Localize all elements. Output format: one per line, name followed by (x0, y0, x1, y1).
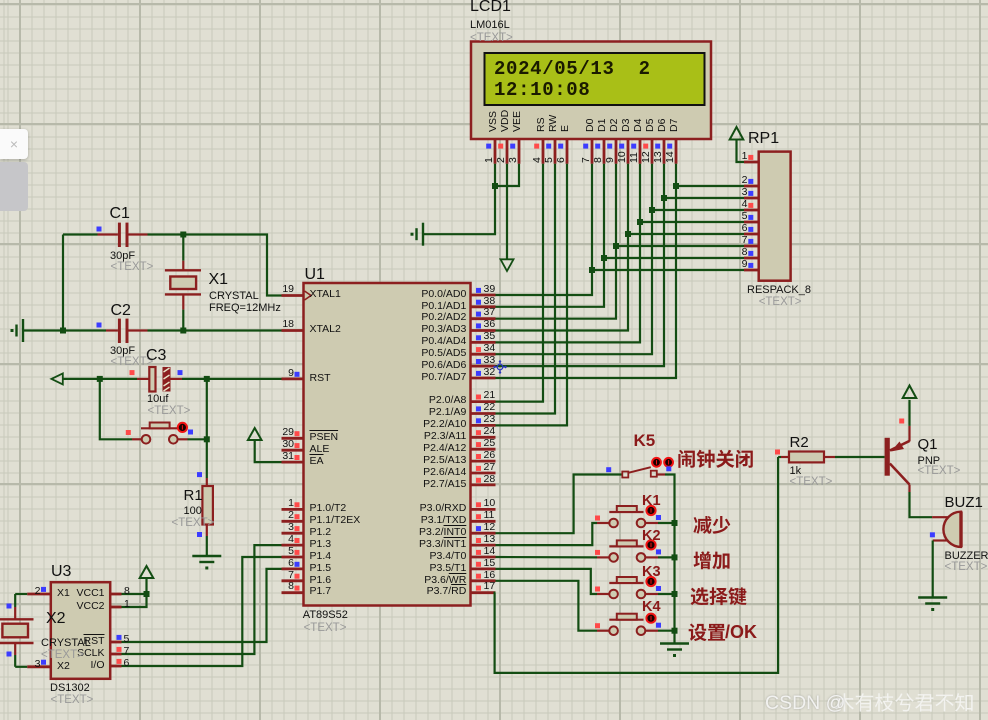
U1 left pin 4 stub (282, 544, 304, 547)
U1 left pin 19 stub (282, 294, 304, 297)
label select-key (chinese) (691, 587, 747, 605)
LCD pin name E (560, 124, 571, 131)
LCD pin name VSS (488, 110, 499, 131)
U3 pin numbers (0, 586, 41, 598)
RP1 pin 7 stub (744, 245, 759, 248)
LCD pin name D6 (657, 118, 668, 131)
junction K2 bus (672, 554, 678, 560)
power arrow EA (248, 428, 262, 440)
LCD pin 13 (D6) stub (663, 139, 666, 164)
ground for LCD VSS/VEE (422, 223, 424, 246)
LCD pin name VEE (512, 110, 523, 131)
U1 pin name P0.7/AD7 (346, 372, 466, 384)
U1 pin name P3.1/TXD (346, 515, 466, 527)
U1 pin number 30 (174, 439, 294, 451)
junction D0-RP1 (589, 267, 595, 273)
U1 left pin 29 stub (282, 437, 304, 440)
wire buzzer to ground (932, 541, 934, 598)
label C3 (146, 347, 166, 364)
U1 pin name P2.4/A12 (346, 443, 466, 455)
LCD pin number 13 (653, 152, 664, 164)
U1 right pin 15 stub (471, 568, 496, 571)
resistor R1 (202, 486, 213, 525)
LCD pin name D0 (585, 118, 596, 131)
wire P3.2 to K5 (496, 475, 623, 534)
wire LCD D5 / P0.5 / RP1 column (496, 164, 653, 354)
U1 pin name P0.1/AD1 (346, 301, 466, 313)
wire LCD E to U1 (496, 164, 568, 426)
U1 pin name P3.4/T0 (346, 551, 466, 563)
wire K5 to bus (665, 475, 675, 644)
U1 pin number 33 (484, 355, 496, 367)
label BUZ1 (945, 495, 983, 511)
LCD screen text (494, 59, 651, 100)
LCD pin number 5 (544, 157, 555, 163)
U1 pin name P3.3/INT1 (346, 539, 466, 551)
U3 right pin 7 stub (110, 653, 121, 656)
U1 left pin 30 stub (282, 449, 304, 452)
LCD pin name VDD (500, 109, 511, 131)
wire reset button branch (100, 379, 132, 439)
U1 pin number 39 (484, 284, 496, 296)
U1 pin name P1.7 (310, 586, 332, 598)
wire LCD RW to U1 (496, 164, 556, 414)
U1 pin number 28 (484, 474, 496, 486)
LCD pin 1 (VSS) stub (494, 139, 497, 164)
LCD pin name RW (548, 114, 559, 131)
U1 right pin 36 stub (471, 329, 496, 332)
wire P3.6 to K4 (496, 581, 598, 631)
U1 pin number 36 (484, 319, 496, 331)
U1 pin name P1.0/T2 (310, 503, 347, 515)
RP1 pin 9 stub (744, 269, 759, 272)
switch K5 (622, 472, 628, 478)
wire P3.3 to K1 (496, 523, 598, 545)
wire RP1 pin1 to power (737, 140, 745, 163)
power arrow RP1 (730, 127, 744, 140)
resistor R2 (778, 456, 781, 458)
wire C1 row to XTAL1 (63, 233, 98, 235)
junction K1 bus (672, 520, 678, 526)
label U1 (305, 266, 325, 283)
U1 left pin 2 stub (282, 520, 304, 523)
wire P3.4 to K2 (496, 556, 598, 559)
U1 pin name P2.5/A13 (346, 455, 466, 467)
U1 right pin 37 stub (471, 317, 496, 320)
U1 right pin 23 stub (471, 424, 496, 427)
capacitor C2 (118, 319, 121, 343)
crystal X1 (182, 235, 184, 261)
U1 pin name P0.4/AD4 (346, 336, 466, 348)
label Q1 (918, 437, 938, 453)
U1 pin number 12 (484, 522, 496, 534)
wire X2 to U3 X1 pin (15, 593, 27, 595)
LCD pin number 12 (641, 152, 652, 164)
label C2 (111, 302, 131, 319)
wire K2 to bus (658, 556, 675, 558)
U1 right pin 34 stub (471, 353, 496, 356)
capacitor C1 (118, 223, 121, 247)
RP1 pin 4 stub (744, 209, 759, 212)
wire Q1 collector to buzzer (910, 492, 933, 517)
U1 pin number 31 (174, 451, 294, 463)
LCD pin number 14 (665, 152, 676, 164)
junction D3-RP1 (625, 231, 631, 237)
U1 pin name P2.7/A15 (346, 479, 466, 491)
wire LCD D6 / P0.6 / RP1 column (496, 164, 665, 366)
U1 pin number 38 (484, 296, 496, 308)
U1 pin name P2.3/A11 (346, 431, 466, 443)
junction K4 bus (672, 628, 678, 634)
LCD pin number 1 (484, 157, 495, 163)
RP1 pin number 4 (628, 199, 748, 211)
U1 left pin 7 stub (282, 579, 304, 582)
U1 pin number 8 (174, 581, 294, 593)
U3 left pin 2 stub (27, 593, 51, 596)
U1 pin number 11 (484, 510, 495, 522)
U1 pin number 29 (174, 427, 294, 439)
U1 pin name P1.6 (310, 575, 332, 587)
push button K4 (597, 630, 609, 632)
U1 pin number 19 (174, 284, 294, 296)
RP1 pin number 8 (628, 247, 748, 259)
wire U3 I/O to P1.4 (122, 557, 282, 666)
U1 pin name P0.5/AD5 (346, 348, 466, 360)
U1 pin name P0.0/AD0 (346, 289, 466, 301)
wire Q1 emitter to power (908, 400, 910, 426)
U1 pin name ALE (310, 444, 330, 456)
U1 pin name PSEN (310, 432, 339, 444)
LCD pin name D1 (597, 118, 608, 131)
power arrow U3 VCC (140, 566, 154, 578)
U1 pin number 34 (484, 343, 496, 355)
U1 right pin 17 stub (471, 591, 496, 594)
U1 right pin 11 stub (471, 520, 496, 523)
LCD pin number 8 (593, 157, 604, 163)
U1 pin number 23 (484, 414, 496, 426)
U1 pin name P3.6/WR (346, 575, 466, 587)
crystal X2 (14, 594, 16, 607)
U1 left pin 9 stub (282, 377, 304, 380)
U1 pin number 35 (484, 331, 496, 343)
U1 left pin 1 stub (282, 508, 304, 511)
LCD pin number 6 (556, 157, 567, 163)
wire LCD RS to U1 (496, 164, 544, 402)
RP1 pin number 1 (628, 151, 748, 163)
watermark (765, 692, 845, 715)
U1 right pin 12 stub (471, 532, 496, 535)
RP1 pin number 5 (628, 211, 748, 223)
U1 pin name P3.7/RD (346, 586, 466, 598)
LCD pin number 9 (605, 157, 616, 163)
U1 pin number 22 (484, 402, 496, 414)
label X1 (209, 271, 229, 288)
junction D7-RP1 (673, 183, 679, 189)
wire VSS/VEE to ground (424, 164, 496, 234)
junction VSS-VEE (492, 183, 498, 189)
wire U3 SCLK to P1.3 (122, 545, 282, 654)
U1 pin number 15 (484, 558, 496, 570)
U1 pin number 17 (484, 581, 496, 593)
LCD1 body (LM016L) (471, 42, 711, 140)
RP1 pin 3 stub (744, 197, 759, 200)
junction RST right (204, 376, 210, 382)
LCD pin 5 (RW) stub (554, 139, 557, 164)
U1 pin name P1.3 (310, 539, 332, 551)
RP1 pin number 9 (628, 259, 748, 271)
LCD pin name RS (536, 117, 547, 132)
junction C1-XTAL (180, 232, 186, 238)
label increase (chinese) (694, 551, 730, 569)
wire RST row (63, 378, 100, 380)
junction reset-R1 (204, 436, 210, 442)
wire RST junction down to R1 (206, 379, 208, 478)
U1 pin name EA (310, 456, 324, 468)
overlay close box (0, 129, 28, 159)
wire LCD D3 / P0.3 / RP1 column (496, 164, 629, 331)
U1 left pin 31 stub (282, 461, 304, 464)
LCD pin number 3 (508, 157, 519, 163)
LCD pin name D2 (609, 118, 620, 131)
junction C2 left (60, 328, 66, 334)
U1 pin name XTAL1 (310, 289, 341, 301)
U1 right pin 32 stub (471, 377, 496, 380)
U1 right pin 38 stub (471, 305, 496, 308)
U1 pin name XTAL2 (310, 324, 341, 336)
LCD pin number 4 (532, 157, 543, 163)
junction U3 VCC (144, 591, 150, 597)
label LCD1 (470, 0, 511, 15)
capacitor C3 (10uf) (149, 367, 155, 392)
junction RST left (97, 376, 103, 382)
RP1 pin number 2 (628, 175, 748, 187)
U1 pin name P2.6/A14 (346, 467, 466, 479)
U1 pin number 2 (174, 510, 294, 522)
push button K3 (597, 593, 609, 595)
U1 right pin 21 stub (471, 400, 496, 403)
label X2 (46, 610, 66, 627)
LCD pin number 11 (629, 152, 640, 163)
wire P3.5 to K3 (496, 569, 598, 594)
ground below buzzer (918, 596, 947, 598)
U3 right pin 8 stub (110, 593, 121, 596)
wire LCD D1 / P0.1 / RP1 column (496, 164, 605, 307)
U1 right pin 28 stub (471, 483, 496, 486)
RP1 pin number 6 (628, 223, 748, 235)
U1 right pin 24 stub (471, 436, 496, 439)
push button K2 (597, 556, 609, 558)
U1 left pin 5 stub (282, 556, 304, 559)
junction K3 bus (672, 591, 678, 597)
mouse cursor (494, 361, 506, 373)
LCD pin 8 (D1) stub (603, 139, 606, 164)
U1 pin number 16 (484, 570, 496, 582)
U1 right pin 26 stub (471, 460, 496, 463)
RP1 RESPACK_8 body (759, 152, 791, 281)
U1 right pin 14 stub (471, 556, 496, 559)
LCD pin 14 (D7) stub (675, 139, 678, 164)
ground at C2 row (22, 319, 24, 342)
U1 right pin 16 stub (471, 579, 496, 582)
LCD pin 11 (D4) stub (639, 139, 642, 164)
U1 pin number 24 (484, 426, 496, 438)
U1 pin number 9 (174, 368, 294, 380)
U1 right pin 25 stub (471, 448, 496, 451)
U1 right pin 13 stub (471, 544, 496, 547)
U3 DS1302 body (51, 582, 110, 679)
U1 left pin 8 stub (282, 591, 304, 594)
RP1 pin number 3 (628, 187, 748, 199)
wire LCD D7 / P0.7 / RP1 column (496, 164, 677, 378)
wire U3 RST to P1.5 (122, 569, 282, 642)
wire button to R1 junction (188, 438, 207, 440)
LCD pin name D5 (645, 118, 656, 131)
U1 pin name P3.0/RXD (346, 503, 466, 515)
U1 pin number 21 (484, 390, 496, 402)
U1 right pin 33 stub (471, 365, 496, 368)
wire LCD D0 / P0.0 / RP1 column (496, 164, 593, 295)
RP1 pin 8 stub (744, 257, 759, 260)
U1 pin name P2.0/A8 (346, 395, 466, 407)
U1 pin number 32 (484, 367, 496, 379)
U1 pin name P2.1/A9 (346, 407, 466, 419)
wire LCD D4 / P0.4 / RP1 column (496, 164, 641, 343)
U1 pin number 25 (484, 438, 496, 450)
wire K3 to bus (658, 593, 675, 595)
U1 left pin 6 stub (282, 568, 304, 571)
watermark chinese glyphs (835, 693, 973, 711)
LCD pin 9 (D2) stub (615, 139, 618, 164)
wire K4 to bus (658, 630, 675, 632)
U1 XTAL1 clock mark (305, 291, 312, 300)
power arrow Q1 (903, 386, 917, 399)
RP1 pin 1 stub (744, 161, 759, 164)
wire K1 to bus (658, 522, 675, 524)
wire left vertical C1-C2 (62, 235, 64, 331)
U1 pin name P0.3/AD3 (346, 324, 466, 336)
U3 left pin 3 stub (27, 665, 51, 668)
ground below R1 (192, 555, 221, 557)
junction D6-RP1 (661, 195, 667, 201)
U1 left pin 3 stub (282, 532, 304, 535)
LCD pin number 7 (581, 157, 592, 163)
label alarm-off (chinese) (678, 450, 752, 468)
U1 AT89S52 body (304, 283, 471, 606)
U1 pin number 10 (484, 498, 496, 510)
label C1 (110, 205, 130, 222)
push button K1 (597, 522, 609, 524)
LCD pin 12 (D5) stub (651, 139, 654, 164)
U1 pin name RST (310, 373, 331, 385)
U1 pin name P1.4 (310, 551, 332, 563)
U1 pin name P0.6/AD6 (346, 360, 466, 372)
transistor Q1 PNP (885, 438, 890, 476)
LCD pin 3 (VEE) stub (518, 139, 521, 164)
LCD pin name D3 (621, 118, 632, 131)
U1 pin number 14 (484, 546, 496, 558)
U1 pin number 1 (174, 498, 294, 510)
U1 pin name P0.2/AD2 (346, 312, 466, 324)
junction D1-RP1 (601, 255, 607, 261)
terminal arrow RST net (51, 373, 62, 384)
LCD pin name D4 (633, 118, 644, 131)
U3 right pin 5 stub (110, 641, 121, 644)
wire R2 to Q1 base (835, 456, 885, 458)
wire VDD terminal (506, 164, 508, 259)
LCD pin 2 (VDD) stub (506, 139, 509, 164)
junction D4-RP1 (637, 219, 643, 225)
U3 right pin 1 stub (110, 606, 121, 609)
U1 pin number 7 (174, 570, 294, 582)
U1 pin number 18 (174, 319, 294, 331)
junction D5-RP1 (649, 207, 655, 213)
wire VCC arrow to VCC1/VCC2 (122, 578, 147, 607)
U1 right pin 39 stub (471, 294, 496, 297)
U1 pin number 3 (174, 522, 294, 534)
U1 pin name P1.5 (310, 563, 332, 575)
U1 pin number 6 (174, 558, 294, 570)
LCD pin number 2 (496, 157, 507, 163)
U1 right pin 35 stub (471, 341, 496, 344)
U1 pin name P2.2/A10 (346, 419, 466, 431)
U1 left pin 18 stub (282, 329, 304, 332)
chinese labels (725, 623, 757, 642)
U1 pin name P1.1/T2EX (310, 515, 361, 527)
buzzer BUZ1 (932, 516, 947, 518)
label decrease (chinese) (693, 516, 730, 534)
U1 pin number 5 (174, 546, 294, 558)
U1 pin number 13 (484, 534, 496, 546)
RP1 pin number 7 (628, 235, 748, 247)
LCD pin 7 (D0) stub (591, 139, 594, 164)
U1 pin name P3.5/T1 (346, 563, 466, 575)
RP1 pin 2 stub (744, 185, 759, 188)
label set/OK (chinese) (689, 623, 725, 641)
label U3 (51, 563, 71, 580)
wire C2 row to XTAL2 (24, 329, 106, 331)
junction D2-RP1 (613, 243, 619, 249)
key labels (642, 494, 661, 510)
RP1 pin 5 stub (744, 221, 759, 224)
U1 right pin 27 stub (471, 472, 496, 475)
reset push button (132, 438, 142, 440)
LCD1 screen (485, 53, 705, 105)
wire LCD D2 / P0.2 / RP1 column (496, 164, 617, 319)
LCD pin 4 (RS) stub (542, 139, 545, 164)
U1 pin name P3.2/INT0 (346, 527, 466, 539)
U1 pin number 37 (484, 307, 496, 319)
LCD pin 10 (D3) stub (627, 139, 630, 164)
label R1 (184, 488, 203, 504)
wire EA to pin31 (255, 440, 282, 462)
U1 pin name P1.2 (310, 527, 332, 539)
U1 right pin 10 stub (471, 508, 496, 511)
wire P3.7 to R2 (495, 457, 778, 673)
ground below key bus (660, 642, 689, 644)
U1 pin number 4 (174, 534, 294, 546)
label R2 (790, 435, 809, 451)
U3 right pin 6 stub (110, 665, 121, 668)
LCD pin name D7 (669, 118, 680, 131)
U1 pin number 27 (484, 462, 496, 474)
U1 pin number 26 (484, 450, 496, 462)
terminal arrow VDD down (501, 259, 514, 271)
LCD pin number 10 (617, 152, 628, 164)
junction C2-XTAL (180, 328, 186, 334)
LCD pin 6 (E) stub (566, 139, 569, 164)
wire X2 to U3 X2 pin (15, 666, 27, 668)
RP1 pin 6 stub (744, 233, 759, 236)
